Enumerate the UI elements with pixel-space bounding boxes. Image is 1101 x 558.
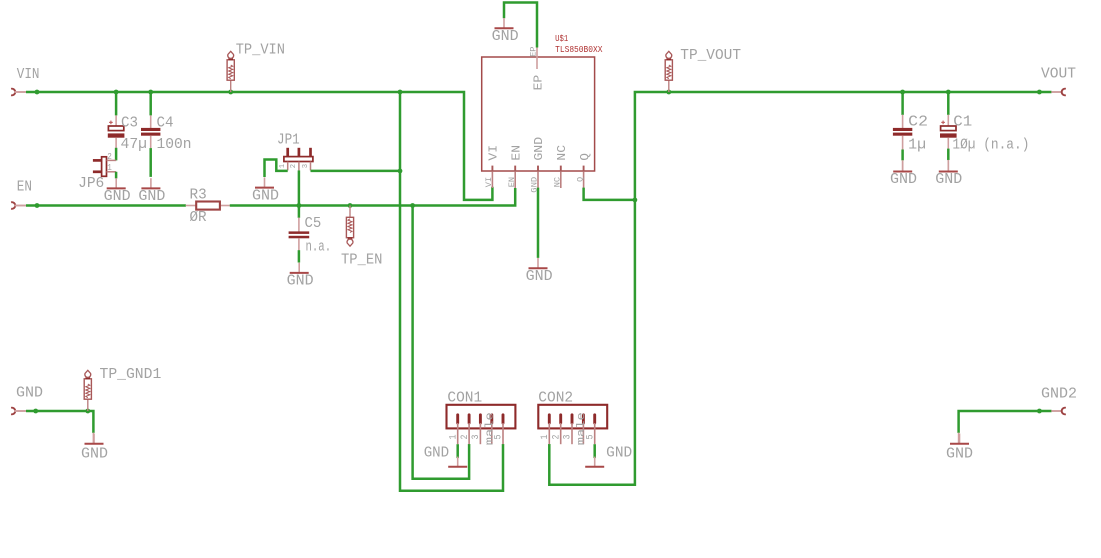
- connector EN pinhead: [11, 202, 15, 209]
- svg-text:GND: GND: [492, 29, 519, 45]
- svg-text:1µ: 1µ: [908, 137, 926, 153]
- wire VOUT to CON2 pin1: [549, 92, 1051, 485]
- ground bottom right: [946, 434, 973, 463]
- wire JP1 pin2 through EN to C5: [298, 170, 301, 217]
- junction VOUT at C1: [946, 90, 951, 95]
- ground below JP6: [104, 178, 131, 205]
- junction EN at C5: [297, 203, 302, 208]
- junction VOUT at TP_VOUT: [666, 90, 671, 95]
- junction Q at VOUT branch: [633, 198, 638, 203]
- pin EN of U$1: [514, 166, 516, 188]
- svg-text:GND: GND: [935, 172, 962, 188]
- svg-text:C2: C2: [908, 115, 928, 131]
- pin stub C5 top: [298, 218, 300, 232]
- connector GND2 pinhead: [1062, 408, 1066, 415]
- pin 2 of CON1: [468, 415, 471, 444]
- svg-text:3: 3: [302, 163, 310, 168]
- svg-text:GND: GND: [81, 447, 108, 463]
- junction EN at CON1 branch: [410, 203, 415, 208]
- svg-text:EP: EP: [532, 75, 545, 91]
- svg-text:1Øµ (n.a.): 1Øµ (n.a.): [952, 137, 1029, 153]
- testpoint TP_VIN: [227, 51, 234, 92]
- svg-text:n.a.: n.a.: [306, 240, 332, 256]
- svg-text:male: male: [484, 412, 496, 445]
- ground bottom left: [81, 434, 108, 463]
- pin NC of U$1: [560, 166, 562, 188]
- junction VOUT end: [1037, 90, 1042, 95]
- pin 2 of CON2: [559, 415, 562, 444]
- svg-text:C1: C1: [953, 115, 972, 131]
- testpoint TP_VOUT: [665, 51, 672, 92]
- ground below CON2: [585, 446, 632, 467]
- resistor R3: [186, 202, 230, 210]
- pin 4 of CON1: [490, 415, 493, 444]
- svg-text:C4: C4: [157, 116, 174, 132]
- pin stub C5 bottom: [298, 238, 300, 250]
- svg-text:1: 1: [447, 434, 458, 439]
- svg-text:EP: EP: [530, 46, 539, 56]
- junction VIN a: [35, 90, 40, 95]
- junction VOUT at C2: [900, 90, 905, 95]
- jumper JP1: [284, 148, 313, 171]
- capacitor C3: [108, 121, 125, 138]
- wire VIN to C4: [149, 92, 152, 115]
- svg-text:3: 3: [470, 434, 481, 439]
- junction GND a: [33, 409, 38, 414]
- pin VI of U$1: [491, 166, 493, 188]
- wire C4 to GND: [149, 148, 152, 177]
- capacitor C4: [141, 128, 160, 136]
- wire EN to R3: [26, 204, 186, 207]
- svg-text:VI: VI: [488, 145, 501, 161]
- junction EN at TP_EN: [348, 203, 353, 208]
- pin 3 of CON1: [479, 415, 482, 444]
- capacitor C2: [893, 128, 912, 136]
- svg-text:C3: C3: [121, 116, 138, 132]
- pin 4 of CON2: [582, 415, 585, 444]
- junction VIN at C4: [148, 90, 153, 95]
- jumper JP6: [93, 157, 116, 177]
- wire JP1 pin3 to VIN branch: [311, 170, 401, 173]
- ground above U$1: [492, 18, 519, 45]
- svg-text:2: 2: [550, 434, 561, 439]
- wire C1 to GND: [947, 149, 950, 161]
- wire VIN to U$1 VI pin: [26, 92, 492, 200]
- svg-text:CON2: CON2: [538, 390, 573, 406]
- svg-text:1: 1: [539, 434, 550, 439]
- pin stub C4 bottom: [150, 136, 152, 149]
- wire GND net: [26, 411, 93, 433]
- pin stub GND: [14, 410, 26, 412]
- svg-text:GND: GND: [252, 188, 279, 204]
- pin stub VOUT: [1051, 91, 1061, 93]
- capacitor C5: [289, 231, 310, 238]
- connector GND pinhead: [11, 408, 15, 415]
- junction VIN at C3: [114, 90, 119, 95]
- svg-text:100n: 100n: [157, 137, 192, 153]
- pin stub C2 bottom: [902, 136, 904, 150]
- svg-text:NC: NC: [554, 177, 563, 187]
- wire GND2 net: [959, 411, 1052, 433]
- svg-text:47µ: 47µ: [121, 137, 148, 153]
- svg-text:2: 2: [290, 163, 298, 168]
- svg-text:GND: GND: [424, 446, 450, 462]
- ground below C2: [890, 161, 917, 188]
- pin 1 of CON2: [548, 415, 551, 444]
- svg-text:VOUT: VOUT: [1041, 66, 1076, 82]
- wire VOUT to C1: [947, 92, 950, 115]
- pin 3 of CON2: [571, 415, 574, 444]
- ground below C5: [287, 263, 314, 290]
- svg-text:GND: GND: [946, 447, 973, 463]
- pin stub C3 bottom: [115, 138, 117, 148]
- svg-text:1: 1: [107, 163, 112, 173]
- pin stub EN: [14, 205, 26, 207]
- testpoint TP_GND1: [84, 370, 91, 411]
- op-amp U1 body TLS850B0XX: [482, 57, 595, 171]
- svg-text:GND: GND: [138, 189, 165, 205]
- svg-text:TP_VOUT: TP_VOUT: [680, 48, 741, 64]
- pin stub C1 top: [947, 115, 949, 127]
- svg-text:male: male: [576, 412, 588, 445]
- svg-text:ØR: ØR: [190, 210, 208, 226]
- pin stub C4 top: [150, 115, 152, 128]
- svg-text:3: 3: [562, 434, 573, 439]
- wire JP1 pin1 to GND: [265, 160, 288, 178]
- wire C3 to JP6 pin 2: [115, 148, 118, 161]
- testpoint TP_EN: [346, 206, 353, 247]
- ground below JP1: [252, 177, 279, 204]
- svg-text:2: 2: [107, 152, 112, 162]
- wire VOUT to C2: [901, 92, 904, 115]
- pin stub C3 top: [115, 115, 117, 126]
- svg-text:EN: EN: [17, 180, 32, 196]
- pin stub GND2 bottom: [958, 433, 960, 444]
- svg-text:GND: GND: [526, 269, 553, 285]
- pin stub VIN: [14, 91, 26, 93]
- svg-text:CON1: CON1: [447, 390, 482, 406]
- pin stub C2 gnd: [902, 160, 904, 171]
- svg-text:NC: NC: [556, 145, 569, 161]
- ground below C4: [138, 178, 165, 205]
- svg-text:U$1: U$1: [555, 34, 568, 44]
- svg-text:R3: R3: [190, 188, 207, 204]
- junction GND2: [1037, 409, 1042, 414]
- pin stub GND2: [1051, 410, 1061, 412]
- ground below C1: [935, 161, 962, 188]
- svg-text:TP_EN: TP_EN: [341, 252, 382, 268]
- junction EN a: [35, 203, 40, 208]
- capacitor C1: [940, 121, 957, 138]
- svg-text:GND: GND: [104, 189, 131, 205]
- junction VIN at TP_VIN: [228, 90, 233, 95]
- pin stub C1 bottom: [947, 138, 949, 149]
- connector VIN pinhead: [11, 89, 15, 96]
- junction GND at TP_GND1: [85, 409, 90, 414]
- svg-text:JP6: JP6: [78, 176, 104, 192]
- svg-text:VI: VI: [485, 177, 494, 187]
- svg-text:Q: Q: [579, 153, 592, 161]
- pin 1 of CON1: [456, 415, 459, 444]
- ground below U$1: [526, 258, 553, 285]
- wire JP6 pin1 to GND: [115, 172, 118, 179]
- pin GND of U$1: [537, 166, 539, 188]
- svg-text:EN: EN: [510, 145, 523, 161]
- junction VIN at CON1 branch: [398, 90, 403, 95]
- pin 5 of CON1: [502, 415, 505, 444]
- pin stub C2 top: [902, 115, 904, 129]
- svg-text:TLS850B0XX: TLS850B0XX: [555, 44, 603, 55]
- svg-text:GND: GND: [16, 386, 43, 402]
- connector CON2: [538, 405, 607, 429]
- wire CON2 pin5 to GND: [593, 444, 596, 458]
- svg-text:GND: GND: [890, 172, 917, 188]
- svg-text:VIN: VIN: [17, 67, 40, 83]
- svg-text:GND: GND: [606, 446, 632, 462]
- wire Q to VOUT branch: [584, 188, 636, 200]
- connector VOUT pinhead: [1062, 89, 1066, 96]
- svg-text:GND: GND: [287, 274, 314, 290]
- wire VIN to C3: [115, 92, 118, 115]
- wire VIN branch to CON1 pin5: [400, 92, 503, 491]
- svg-text:GND: GND: [533, 137, 546, 161]
- wire C2 to GND: [901, 150, 904, 161]
- pin EP of U$1: [536, 47, 538, 69]
- pin stub C1 gnd: [947, 160, 949, 171]
- pin stub GND1 bottom: [92, 433, 94, 444]
- svg-text:1: 1: [279, 163, 287, 168]
- ground below CON1: [424, 446, 468, 467]
- wire U$1 GND pin to ground: [537, 188, 540, 258]
- svg-text:C5: C5: [305, 216, 322, 232]
- junction JP1 pin3 wire: [398, 169, 403, 174]
- svg-text:TP_VIN: TP_VIN: [236, 43, 285, 59]
- wire C5 to GND: [298, 250, 301, 262]
- wire CON1 pin1 to GND: [456, 444, 459, 458]
- svg-text:TP_GND1: TP_GND1: [100, 367, 162, 383]
- svg-text:GND2: GND2: [1041, 386, 1077, 402]
- pin Q of U$1: [583, 166, 585, 188]
- svg-text:EN: EN: [508, 177, 517, 187]
- wire EP to GND: [504, 3, 537, 48]
- svg-text:Q: Q: [576, 177, 585, 182]
- wire EN branch to CON1 pin2: [413, 206, 470, 479]
- pin 5 of CON2: [593, 415, 596, 444]
- svg-text:JP1: JP1: [277, 132, 300, 148]
- wire EN line to U$1 EN pin: [230, 188, 515, 206]
- connector CON1: [447, 405, 516, 429]
- svg-text:2: 2: [459, 434, 470, 439]
